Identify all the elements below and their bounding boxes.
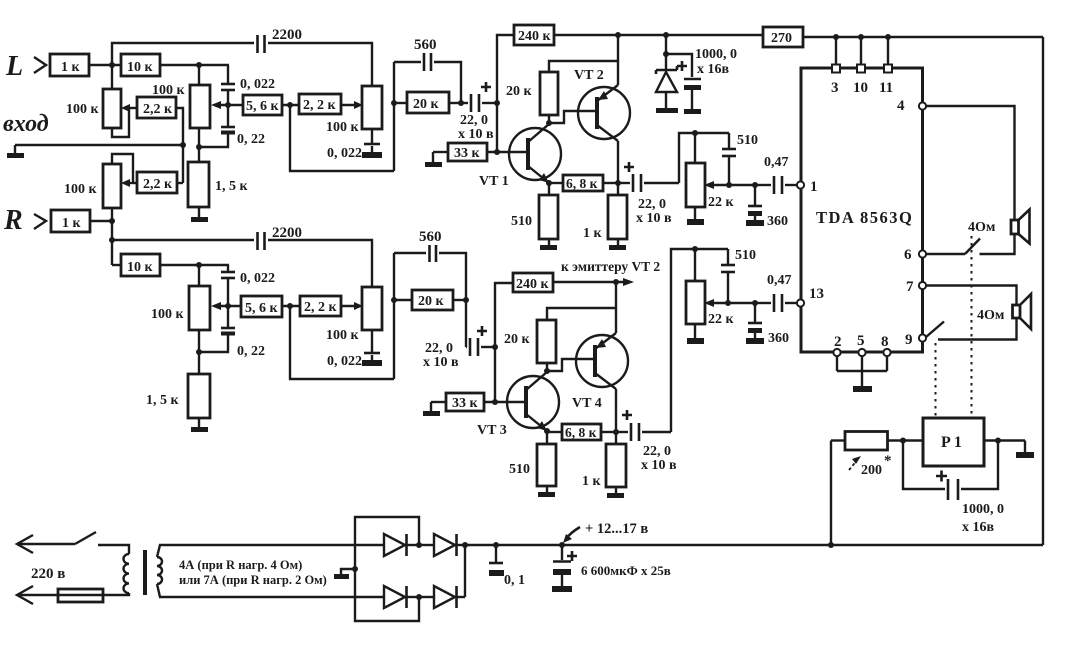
node bridge ground tap [352,566,358,572]
svg-text:100 к: 100 к [64,182,98,197]
svg-text:100 к: 100 к [326,328,360,343]
wire 33k R to VT3 base [484,401,526,403]
resistor 1.5k L [188,162,249,207]
capacitor 1000.0 x16v relay [903,441,1004,536]
node bridge bottom mid [416,594,422,600]
svg-text:2200: 2200 [272,225,302,241]
wire L output to pin1 net [679,133,729,183]
capacitor 0.22 L [199,105,265,147]
wire 240k L rail [554,34,763,36]
label +12..17v [563,521,648,543]
wire 2200 L to right pot top [268,43,372,86]
svg-text:100 к: 100 к [66,102,100,117]
wire pin4 to speaker1 [926,106,1015,220]
svg-text:1, 5 к: 1, 5 к [146,393,180,408]
svg-text:или 7А (при R нагр. 2 Ом): или 7А (при R нагр. 2 Ом) [179,573,327,587]
ground 33k L [425,152,448,167]
node pin13 net top [692,246,698,252]
svg-text:0, 022: 0, 022 [240,271,275,286]
wire 20k R top to VT4 emitter rail [547,308,616,320]
wire 5.6k to 2.2k L [282,104,299,106]
resistor 20k L load [506,72,558,123]
svg-text:R: R [3,205,23,236]
pin 8 [881,334,891,356]
node pin10 rail [858,34,864,40]
node R input junction [109,218,115,224]
wire ground pins 2 5 8 [837,356,887,386]
transformer T1 secondary [157,557,162,584]
wire down to mid pot L [198,65,200,85]
wiper arrow 22k pin1 [704,181,755,189]
svg-text:x 16в: x 16в [962,520,995,535]
svg-text:5, 6 к: 5, 6 к [246,99,280,114]
svg-text:11: 11 [879,80,893,96]
node 20k R right [463,297,469,303]
svg-text:3: 3 [831,80,839,96]
resistor 510 L [511,183,558,239]
node 20k R left [391,297,397,303]
wire 200 to P1 [888,439,924,441]
wire 1k R to node [90,220,112,222]
resistor 20k R [394,290,466,310]
wiper arrow 100k R right [341,302,363,310]
potentiometer 100k R mid [151,286,210,330]
resistor 2.2k L series [299,94,341,114]
svg-text:6, 8 к: 6, 8 к [565,425,597,440]
svg-text:1 к: 1 к [582,474,602,489]
svg-text:+ 12...17 в: + 12...17 в [585,521,648,537]
potentiometer 22k pin13 [686,249,735,327]
resistor 5.6k L [243,95,282,115]
svg-text:240 к: 240 к [516,277,550,292]
node 20k L left [391,100,397,106]
svg-text:0, 22: 0, 22 [237,344,265,359]
svg-text:0, 022: 0, 022 [327,146,362,161]
svg-text:9: 9 [905,332,913,348]
svg-text:TDA 8563Q: TDA 8563Q [816,208,913,227]
wire relay link dotted upper [971,236,973,416]
svg-text:6 600мкФ x 25в: 6 600мкФ x 25в [581,563,671,578]
svg-text:VT 2: VT 2 [574,68,604,83]
wire mains upper [17,543,75,545]
wire bridge midpoint loop [355,517,419,621]
wiper arrow 100k R mid [211,302,241,310]
svg-text:360: 360 [768,331,789,346]
svg-text:0,47: 0,47 [767,273,792,288]
wire down to mid pot R [198,265,200,286]
potentiometer 100k R right [326,287,382,343]
node 360 pin1 [752,182,758,188]
pin 7 [906,279,926,295]
capacitor 0.1 [489,542,525,588]
pin 5 [857,333,866,356]
node mid pot R top [196,262,202,268]
wire VT1 collector to VT2 base [549,111,597,123]
pin 10 [853,65,868,97]
wire R output to pin13 net [671,249,728,432]
pin 13 [797,286,824,307]
wiper arrow 100k L left [121,104,137,112]
capacitor 510 pin1 [722,133,758,185]
node R tone junction [287,303,293,309]
wire 20k L top to VT2 emitter rail [549,61,618,72]
resistor 6.8k L [549,175,618,191]
wire supply bottom rail [465,544,1043,546]
wiper arrow 100k L mid [211,101,243,109]
wire 200 to supply rail [830,441,832,546]
svg-text:*: * [884,453,892,469]
svg-text:100 к: 100 к [152,83,186,98]
label transformer current [179,558,327,587]
potentiometer 100k L mid [152,83,210,128]
wire VT3 collector to VT4 base [547,359,595,371]
resistor 1.5k R [146,374,210,418]
capacitor 510 pin13 [721,248,756,303]
ground relay [1016,441,1034,459]
svg-text:1 к: 1 к [62,216,82,231]
resistor 10k R [121,254,160,276]
wire 2.2k R right to vertical bus [177,182,183,184]
resistor 240k L [514,25,554,45]
resistor 1k R [51,210,90,232]
resistor 33k R [446,393,484,411]
svg-text:x 16в: x 16в [697,62,730,77]
resistor 1k L emitter [583,183,627,241]
svg-text:10: 10 [853,80,868,96]
node VT1 base line [494,149,500,155]
svg-text:1 к: 1 к [61,60,81,75]
svg-text:360: 360 [767,214,788,229]
wire speaker1 to pin6 [980,234,1015,254]
svg-text:1000, 0: 1000, 0 [962,502,1004,517]
node 22.0 R out [492,344,498,350]
resistor 200 adjustable [831,432,892,479]
potentiometer 22k pin1 [686,133,735,210]
node bridge output [462,542,468,548]
node mid pot L bottom [196,144,202,150]
node 360 pin13 [752,300,758,306]
svg-text:6: 6 [904,247,912,263]
svg-text:x 10 в: x 10 в [458,127,494,142]
pin 6 [904,247,926,263]
svg-text:22, 0: 22, 0 [425,341,453,356]
resistor 20k L [394,92,461,113]
wire relay link dotted lower [935,343,937,416]
svg-text:100 к: 100 к [326,120,360,135]
diode D4 [419,586,465,608]
svg-text:200: 200 [861,463,882,478]
svg-text:20 к: 20 к [413,97,440,112]
transistor VT4 [572,333,628,411]
capacitor 2200 L [258,27,303,53]
node 22.0 L out [494,100,500,106]
node VT3 emitter [544,428,550,434]
ground IC [853,386,872,392]
svg-text:вход: вход [3,111,49,137]
node VT3 base line [492,399,498,405]
wire 270 supply rail [803,36,1043,38]
connector mains lower arrow [17,586,33,604]
ground 510 R [538,486,555,497]
wire 2200 R to right pot top [268,240,372,287]
svg-text:10 к: 10 к [127,60,154,75]
resistor 510 R [509,431,556,486]
capacitor 0.22 R [199,306,265,359]
speaker 4 Ohm lower [977,294,1031,329]
wire secondary top [157,545,384,557]
wiper arrow 100k R left [121,179,137,187]
svg-text:220 в: 220 в [31,566,65,582]
capacitor 560 R [394,229,466,300]
transistor VT1 [479,124,561,189]
svg-text:4А (при R нагр. 4 Ом): 4А (при R нагр. 4 Ом) [179,558,302,572]
svg-text:22, 0: 22, 0 [460,113,488,128]
svg-text:5: 5 [857,333,865,349]
ground 1k L [609,239,626,250]
node VT1 emitter [546,180,552,186]
wire P1 to ground [984,439,1025,441]
ground bridge [334,569,355,579]
wire 240k R to VT2 emitter note [553,259,660,286]
node VT3 collector [544,368,550,374]
node mid pot L top [196,62,202,68]
node P1 right [995,438,1001,444]
svg-text:22 к: 22 к [708,312,735,327]
svg-text:6, 8 к: 6, 8 к [566,176,598,191]
svg-text:0,47: 0,47 [764,155,789,170]
svg-text:20 к: 20 к [506,84,533,99]
pin 9 [905,332,926,348]
pin 11 [879,65,893,97]
svg-text:VT 1: VT 1 [479,174,509,189]
svg-text:1: 1 [810,179,818,195]
svg-text:4Ом: 4Ом [968,220,996,235]
svg-text:560: 560 [414,37,437,53]
svg-text:560: 560 [419,229,442,245]
diode D1 [384,534,419,556]
wire VT2 emitter up [617,35,619,85]
svg-text:20 к: 20 к [504,332,531,347]
capacitor 560 L [394,37,461,103]
wire bridge output up [464,545,466,597]
wire VT4 emitter up [615,282,617,333]
capacitor 360 pin1 [746,185,788,229]
svg-text:8: 8 [881,334,889,350]
svg-text:22, 0: 22, 0 [643,444,671,459]
wire R to 10k [112,264,121,266]
wire mid pot L bottom [198,128,200,162]
svg-text:P 1: P 1 [941,434,962,451]
node VT1 collector [546,120,552,126]
ground 33k R [423,402,446,416]
svg-text:7: 7 [906,279,914,295]
wire VT4 collector down [615,389,617,432]
node L tone junction [287,102,293,108]
capacitor 1000.0 x16v top [666,47,737,114]
ground 1.5k R [191,418,208,432]
ground 22k pin1 [687,207,704,225]
node pin11 rail [885,34,891,40]
node 2200 R [109,237,115,243]
wire pin3 drop [835,37,837,66]
resistor 33k L [448,143,487,161]
svg-text:5, 6 к: 5, 6 к [245,301,279,316]
node VT2 collector out [615,180,621,186]
wire node down to left pot [111,65,113,89]
connector mains upper arrow [17,535,33,553]
svg-text:510: 510 [737,133,758,148]
svg-text:L: L [5,51,23,82]
svg-text:13: 13 [809,286,824,302]
wire pot bottom strap L [112,108,129,137]
speaker 4 Ohm upper [968,210,1030,244]
svg-text:x 10 в: x 10 в [423,355,459,370]
node pin3 rail [833,34,839,40]
resistor 10k L [121,54,160,76]
connector R input chevron [34,214,46,229]
wire 10k L to mid pot [160,64,229,66]
transistor VT3 [477,372,559,438]
transistor VT2 [574,68,630,141]
wiper arrow 22k pin13 [704,299,755,307]
resistor 6.8k R [547,424,616,440]
svg-text:2, 2 к: 2, 2 к [304,300,338,315]
potentiometer 100k L right [326,86,382,135]
capacitor 22.0 L coupling [458,82,497,142]
switch mains [75,532,96,544]
diode zener [656,32,678,113]
svg-text:4Ом: 4Ом [977,308,1005,323]
capacitor 360 pin13 [746,303,789,346]
node VT4 collector out [613,429,619,435]
resistor 2.2k R left [137,172,177,193]
resistor 2.2k L left [137,97,176,118]
switch pin9 relay contact [926,322,944,338]
wire pin7 to speaker2 [926,286,1017,306]
transformer T1 core [143,550,147,595]
capacitor 0.47 pin13 [755,273,797,312]
resistor 2.2k R series [300,296,341,316]
svg-text:2,2 к: 2,2 к [143,102,173,117]
svg-text:4: 4 [897,98,905,114]
svg-text:100 к: 100 к [151,307,185,322]
wire pin11 drop [887,37,889,66]
wire secondary bottom [157,584,384,597]
wire 240k L vertical [497,35,514,152]
wire L tone loop [290,105,394,171]
node mid pot R bottom [196,349,202,355]
svg-text:VT 4: VT 4 [572,396,602,411]
capacitor 22.0 R output [616,410,677,473]
wire 2200 R rail [112,239,254,241]
svg-text:1 к: 1 к [583,226,603,241]
wire R node vertical [111,208,113,265]
potentiometer 100k R left [64,164,121,208]
node bridge top mid [416,542,422,548]
ground 510 L [540,239,557,250]
capacitor 22.0 L output [618,162,679,226]
svg-text:510: 510 [509,462,530,477]
svg-text:0, 22: 0, 22 [237,132,265,147]
svg-text:x 10 в: x 10 в [636,211,672,226]
connector L input chevron [34,57,46,73]
node pin1 net top [692,130,698,136]
svg-text:x 10 в: x 10 в [641,458,677,473]
svg-text:0, 1: 0, 1 [504,573,525,588]
resistor 1k L [50,54,89,76]
wire VT2 collector down [617,141,619,183]
wire 10k R to mid pot [160,264,229,266]
wire speaker2 to pin9 [938,318,1017,340]
svg-text:2, 2 к: 2, 2 к [303,98,337,113]
node VT2 emitter rail [615,32,621,38]
resistor 270 [763,27,803,47]
capacitor 0.022 R bottom [327,330,382,369]
diode D2 [419,534,465,556]
ground input [7,145,24,158]
transformer T1 primary [124,554,130,593]
wire supply right edge [1042,37,1044,545]
pin 1 [797,179,818,195]
wire 33k L to VT1 base [487,151,528,153]
switch pin6 relay contact [926,239,980,255]
svg-text:0, 022: 0, 022 [327,354,362,369]
pin 3 [831,65,840,97]
svg-text:0, 022: 0, 022 [240,77,275,92]
ground 1k R [607,487,624,498]
ground 22k pin13 [687,324,704,344]
node ground bus junction [180,142,186,148]
pin 4 [897,98,926,114]
wire 240k R vertical [495,283,513,402]
capacitor 0.022 R top [221,265,275,306]
wire R filter vertical [393,253,395,379]
resistor 20k R load [504,320,556,371]
svg-text:1, 5 к: 1, 5 к [215,179,249,194]
node P1 left [900,438,906,444]
svg-text:10 к: 10 к [127,260,154,275]
wire L filter vertical [393,62,395,171]
op-amp U1 TDA8563Q body [801,68,923,352]
wire pot top strap R [112,154,133,183]
resistor 240k R [513,273,553,292]
capacitor 22.0 R coupling [423,300,495,370]
svg-text:510: 510 [511,214,532,229]
svg-text:22 к: 22 к [708,195,735,210]
svg-text:33 к: 33 к [452,396,479,411]
fuse [58,589,103,602]
svg-text:2,2 к: 2,2 к [143,177,173,192]
capacitor 0.022 L top [221,65,275,105]
wire switch to transformer [98,545,129,554]
node 200 rail drop [828,542,834,548]
wire 5.6k to 2.2k R [282,305,300,307]
wire input ground [15,144,183,146]
wire 1k L to node [89,64,121,66]
wire R tone loop [290,306,394,379]
node 20k L right [458,100,464,106]
capacitor 0.022 L bottom [327,129,382,161]
resistor 1k R emitter [582,432,626,489]
wire mid pot R bottom [198,330,200,374]
capacitor 0.47 pin1 [755,155,797,194]
relay P1 [923,418,984,466]
wire node up to 2200 rail [112,43,254,65]
pin 2 [833,334,841,356]
svg-text:33 к: 33 к [454,146,481,161]
svg-text:240 к: 240 к [518,29,552,44]
capacitor 2200 R [258,225,303,250]
